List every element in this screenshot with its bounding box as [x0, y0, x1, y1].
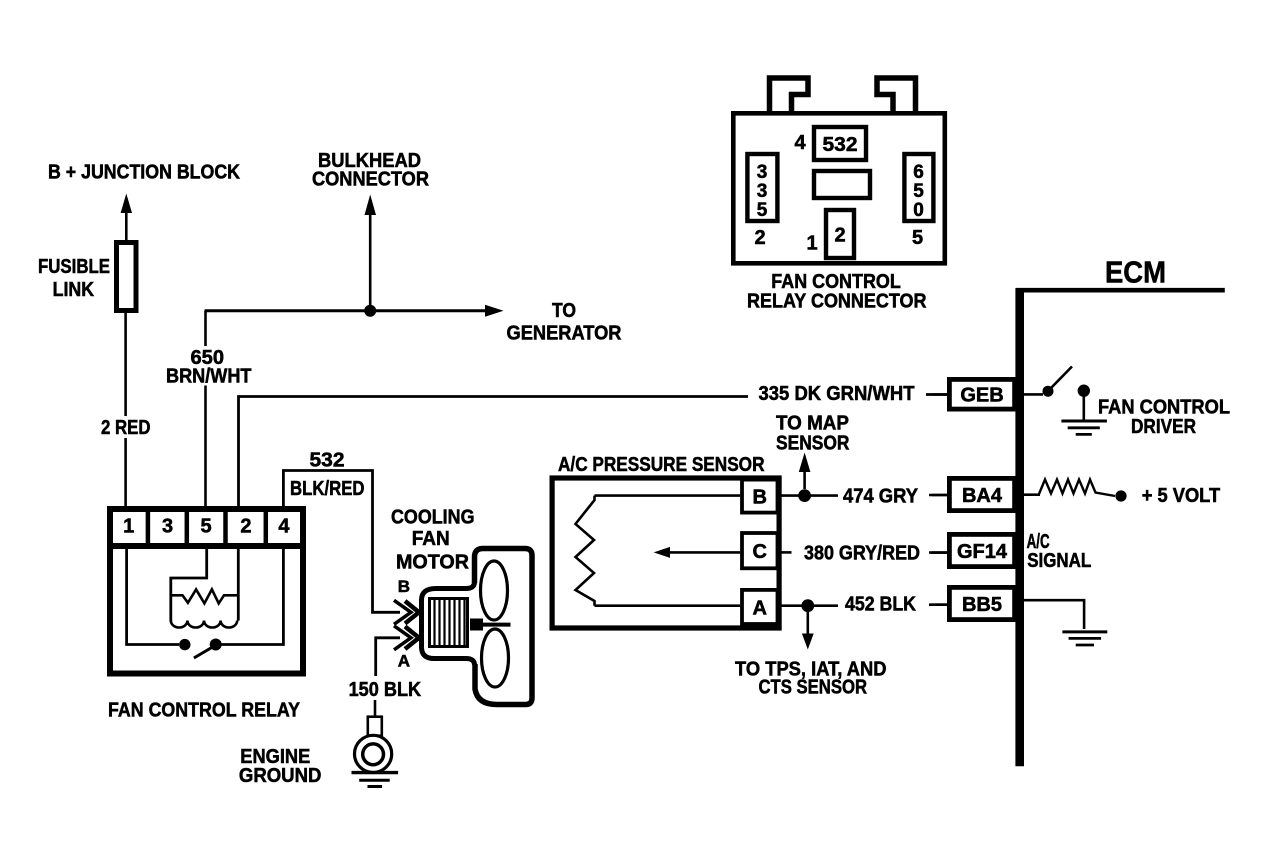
sensor internal wire pin B to resistor [595, 494, 741, 497]
wire 2 RED lower segment to relay pin 1 [124, 438, 127, 507]
+5V node dot [1115, 490, 1126, 501]
relay switch contact dot left [179, 639, 190, 650]
svg-text:GEB: GEB [960, 385, 1003, 407]
wire arrow to MAP sensor [799, 453, 811, 490]
fan shroud outline [475, 549, 533, 705]
svg-text:1: 1 [123, 516, 134, 538]
relay internal wire from pin 5 to coil [171, 549, 207, 622]
junction dot on 452 BLK [801, 599, 814, 612]
engine ground ring inner [363, 744, 384, 765]
fan control driver switch lever [1051, 367, 1072, 389]
relay switch contact dot right [210, 639, 222, 651]
svg-text:3: 3 [162, 516, 173, 538]
wire 474 GRY from sensor pin B [779, 494, 838, 497]
svg-text:C: C [752, 541, 766, 563]
relay pin cell dividers [148, 506, 266, 546]
wire arrow to bulkhead connector [365, 195, 377, 312]
inline connector chevrons at terminal B [394, 600, 411, 624]
svg-text:5: 5 [757, 200, 768, 221]
svg-text:TO MAP: TO MAP [776, 413, 849, 435]
sensor internal wiper arrow from pin C [654, 547, 741, 558]
svg-text:474 GRY: 474 GRY [843, 486, 919, 508]
fan shaft hub [470, 619, 483, 631]
wire 150 BLK lower segment [374, 700, 377, 716]
svg-text:BRN/WHT: BRN/WHT [166, 366, 252, 388]
wire 380 GRY/RED stub into GF14 [929, 551, 947, 554]
svg-text:RELAY CONNECTOR: RELAY CONNECTOR [747, 291, 927, 313]
wire arrowhead to generator [485, 305, 504, 317]
svg-text:BB5: BB5 [962, 594, 1002, 616]
connector J1 mounting tab left [770, 78, 809, 111]
svg-text:GENERATOR: GENERATOR [507, 323, 623, 345]
wire 335 stub into GEB [926, 393, 947, 396]
svg-text:6: 6 [913, 162, 924, 183]
wire 650 horizontal run [205, 309, 487, 312]
svg-text:2: 2 [754, 227, 765, 249]
svg-text:FUSIBLE: FUSIBLE [38, 256, 110, 278]
svg-text:B: B [752, 487, 766, 509]
svg-text:5: 5 [200, 516, 211, 538]
engine ground ring outer [355, 735, 392, 772]
svg-text:2 RED: 2 RED [101, 417, 151, 439]
relay internal wire from pin 2 to coil [237, 549, 240, 621]
wire 452 BLK from sensor pin A [779, 604, 838, 607]
junction dot at bulkhead branch [364, 305, 376, 317]
BB5 ground symbol [1062, 632, 1107, 645]
svg-text:A: A [398, 652, 410, 671]
connector J1 mounting tab right [877, 78, 916, 111]
svg-text:335 DK GRN/WHT: 335 DK GRN/WHT [759, 383, 915, 405]
fan control driver switch wire [1024, 393, 1043, 396]
svg-text:2: 2 [240, 516, 251, 538]
relay pin row divider line [107, 543, 306, 549]
+5V reference resistor R1 [1039, 480, 1115, 497]
svg-text:4: 4 [278, 516, 290, 538]
inline connector chevrons at terminal A [394, 626, 411, 650]
engine ground terminal lug [368, 717, 382, 736]
relay coil resistor [171, 589, 238, 603]
relay switch lever [194, 645, 216, 658]
svg-text:BLK/RED: BLK/RED [290, 478, 365, 500]
svg-text:COOLING: COOLING [391, 506, 475, 528]
wire arrow to B+ junction block [121, 194, 132, 242]
fan control driver ground symbol [1061, 421, 1107, 434]
connector cavity wire 335 [747, 154, 777, 221]
svg-text:4: 4 [794, 132, 806, 154]
sensor internal wire resistor to pin A [595, 604, 741, 607]
svg-text:CTS SENSOR: CTS SENSOR [759, 676, 868, 698]
ECM terminal BB5 [949, 587, 1014, 619]
+5V reference resistor wire [1024, 493, 1040, 496]
wire 380 GRY/RED from sensor pin C [779, 551, 792, 554]
svg-text:150 BLK: 150 BLK [349, 679, 422, 701]
relay internal wire pin 1 to switch [127, 549, 179, 645]
relay internal wire switch to pin 4 [222, 549, 284, 645]
sensor pin B [742, 480, 778, 513]
motor housing [422, 582, 475, 665]
svg-text:5: 5 [912, 227, 923, 249]
engine ground symbol lines [352, 773, 399, 787]
wire arrow to TPS IAT CTS sensors [802, 612, 814, 650]
svg-text:GF14: GF14 [957, 541, 1008, 563]
svg-text:LINK: LINK [53, 279, 95, 301]
svg-text:B + JUNCTION BLOCK: B + JUNCTION BLOCK [48, 162, 240, 184]
motor core striped box [430, 599, 468, 647]
wire 474 GRY stub into BA4 [929, 494, 947, 497]
svg-text:380 GRY/RED: 380 GRY/RED [804, 543, 920, 565]
svg-text:A: A [752, 597, 766, 619]
svg-text:1: 1 [806, 232, 817, 254]
wire 532 BLK/RED from relay pin 4 to motor terminal B [283, 471, 400, 613]
wire stub into terminal BA4 [932, 494, 949, 497]
wire 452 BLK stub into BB5 [929, 603, 947, 606]
fan control driver ground wire [1083, 391, 1086, 421]
sensor pin C [742, 533, 778, 568]
sensor U1 box [552, 478, 779, 628]
connector cavity wire 2 [826, 210, 854, 258]
wire 150 BLK from motor terminal A [376, 638, 400, 676]
ECM terminal GEB [949, 379, 1014, 409]
fan control driver switch contact dot [1043, 386, 1054, 397]
svg-text:3: 3 [757, 162, 768, 183]
svg-text:ECM: ECM [1105, 255, 1166, 290]
svg-text:+ 5 VOLT: + 5 VOLT [1142, 485, 1221, 507]
sensor internal resistor zigzag [576, 496, 595, 606]
svg-text:2: 2 [834, 224, 845, 246]
connector J1 fan control relay connector body [733, 113, 945, 263]
ECM boundary vertical line [1015, 288, 1024, 766]
svg-text:B: B [398, 577, 410, 596]
wire stub into terminal GEB [932, 393, 950, 396]
wire 335 DK GRN/WHT from relay pin 2 [239, 397, 749, 508]
fusible link F1 [117, 243, 137, 311]
svg-text:3: 3 [757, 181, 768, 202]
svg-text:BA4: BA4 [962, 485, 1003, 507]
ECM terminal BA4 [949, 478, 1014, 510]
ECM boundary top line [1016, 288, 1225, 293]
svg-text:A/C PRESSURE SENSOR: A/C PRESSURE SENSOR [558, 454, 765, 476]
ECM terminal GF14 [949, 534, 1014, 566]
fan blade lower [482, 629, 509, 687]
connector cavity blank [814, 171, 870, 198]
wire 650 BRN/WHT upper vertical [204, 311, 207, 346]
svg-text:DRIVER: DRIVER [1131, 416, 1196, 438]
fan control driver ground dot [1078, 385, 1090, 397]
wire 650 BRN/WHT lower vertical to relay pin 5 [204, 386, 207, 508]
connector cavity wire 532 [814, 127, 866, 160]
sensor pin A [742, 590, 778, 624]
svg-text:FAN CONTROL RELAY: FAN CONTROL RELAY [108, 699, 300, 722]
svg-text:SIGNAL: SIGNAL [1027, 550, 1091, 572]
svg-text:5: 5 [913, 181, 924, 202]
svg-text:TO: TO [552, 300, 576, 322]
svg-text:532: 532 [823, 134, 858, 156]
svg-text:GROUND: GROUND [239, 765, 322, 787]
svg-text:MOTOR: MOTOR [396, 552, 470, 574]
svg-text:0: 0 [913, 200, 924, 221]
svg-text:FAN: FAN [412, 528, 450, 550]
wire stub into terminal BB5 [932, 603, 949, 606]
wire 2 RED upper segment [124, 313, 127, 416]
BB5 ground wire [1024, 600, 1084, 629]
fan shaft [483, 623, 511, 627]
svg-text:CONNECTOR: CONNECTOR [312, 169, 430, 191]
junction dot on 474 GRY [798, 489, 811, 502]
relay K1 fan control relay box [110, 509, 303, 674]
svg-text:532: 532 [310, 450, 345, 472]
wire stub into terminal GF14 [932, 551, 949, 554]
relay coil winding [171, 621, 237, 628]
svg-text:452 BLK: 452 BLK [845, 594, 916, 616]
svg-text:SENSOR: SENSOR [776, 432, 850, 454]
fan blade upper [481, 561, 508, 620]
connector cavity wire 650 [904, 154, 933, 221]
